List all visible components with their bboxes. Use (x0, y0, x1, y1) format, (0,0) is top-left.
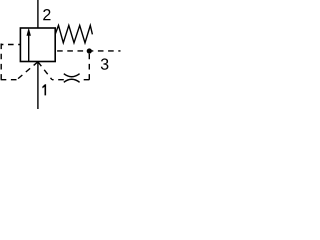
pilot line left horizontal (1, 44, 20, 46)
label port 1 (42, 84, 46, 95)
pilot line left vertical (0, 43, 2, 80)
pilot line bottom left segment (1, 79, 17, 81)
pilot line bottom right segment (80, 79, 90, 81)
flow arrow head (27, 28, 31, 36)
wire port 1 line (37, 62, 39, 110)
wire port 2 line (37, 0, 39, 28)
orifice bottom arc (64, 79, 80, 82)
junction node dot (87, 48, 92, 53)
label port 3 (101, 58, 109, 69)
label port 2 (43, 9, 50, 20)
pilot line right rail (57, 50, 120, 52)
pilot diagonal left (17, 62, 38, 80)
pilot line left of orifice (52, 79, 64, 81)
orifice top arc (64, 74, 80, 77)
pilot diagonal right (38, 62, 52, 80)
pilot-operated pressure valve schematic (0, 0, 121, 109)
flow arrow shaft (28, 34, 30, 62)
spring W1 (55, 25, 92, 42)
valve body V1 (20, 28, 55, 62)
pilot line right vertical (88, 51, 90, 80)
